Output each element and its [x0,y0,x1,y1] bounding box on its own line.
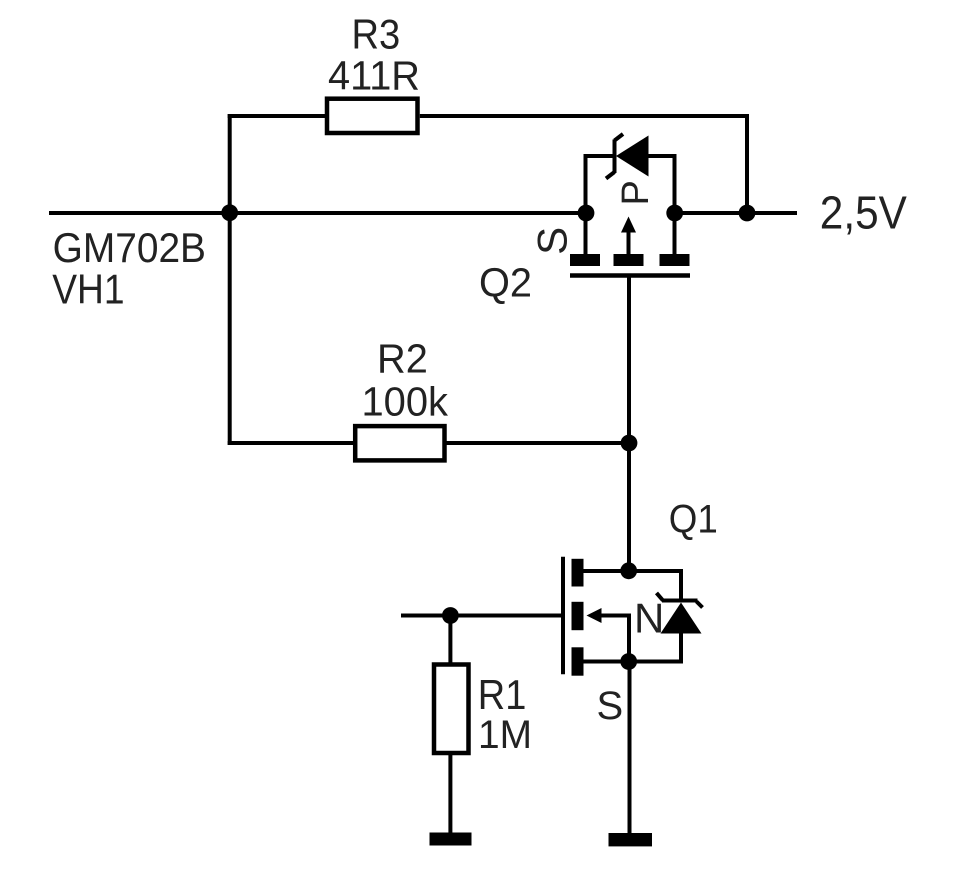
svg-text:100k: 100k [362,379,449,425]
wire: Q1 source to ground vertical [628,662,632,835]
node: R1 / gate junction dot [442,607,459,624]
wire: Q2 source vertical to channel bar [584,213,588,256]
Q1 channel bar drain [572,559,584,587]
wire: Q1 source horizontal [584,660,684,664]
Q2 body diode right wire [649,154,677,158]
svg-text:GM702B: GM702B [53,224,206,271]
svg-text:2,5V: 2,5V [820,187,907,239]
wire: Q1 gate horizontal [401,614,561,618]
wire: junction down to Q1 drain [627,443,631,571]
Q2 channel bar source [570,254,600,266]
svg-text:P: P [615,180,657,205]
Q2 gate plate [570,273,690,278]
wire: R2 right horizontal to Q2 gate net [445,441,630,445]
transistor Q1 n-channel MOSFET [563,498,718,728]
node: Q2 source dot on input net [578,205,595,222]
Q2 body diode cathode bar (zener) [613,140,617,174]
Q1 body diode cathode right tail [697,602,703,608]
svg-text:VH1: VH1 [52,266,124,313]
wire: R1 top vertical [448,616,452,665]
Q2 channel bar drain [660,254,690,266]
Q2 channel bar bulk [614,254,644,266]
Q2 body diode triangle [616,136,649,177]
Q2 bulk arrow (P-channel, pointing up) [627,230,631,256]
wire: R2 branch left horizontal [228,441,357,445]
svg-text:N: N [634,595,664,642]
svg-text:S: S [529,227,576,255]
Q2 body diode cathode bottom tail [606,172,615,179]
node: Q1 source junction dot [620,653,637,670]
Q1 body diode cathode left tail [657,593,664,601]
node: Q2 drain dot on 2,5V net [666,205,683,222]
svg-text:Q1: Q1 [669,498,718,542]
wire: Q2 drain vertical to channel bar [673,213,677,256]
wire: R3 branch top right horizontal [420,114,749,118]
ground symbol below Q1 source [609,833,653,846]
Q1 channel bar bulk [572,602,584,630]
ground symbol below R1 [430,833,472,846]
svg-text:1M: 1M [478,713,532,757]
svg-text:411R: 411R [328,53,420,99]
wire: input net to Q2 source [230,211,586,215]
svg-text:R1: R1 [478,671,527,718]
wire: R1 bottom vertical [448,753,452,834]
wire: Q1 body branch right vertical upper [679,571,683,601]
transistor Q2 p-channel MOSFET [479,134,690,306]
Q1 body diode cathode bar (zener) [662,599,698,603]
resistor R2 [355,426,444,460]
wire: R3 branch right vertical down to 2,5V net [745,114,749,213]
wire: R3 branch top left horizontal [228,114,327,118]
svg-text:R2: R2 [377,335,428,381]
wire: 2,5V net horizontal [675,211,797,215]
node: 2,5V junction dot [739,205,756,222]
Q1 body diode triangle [661,603,702,634]
wire: Q2 gate vertical down from gate plate [627,277,631,443]
svg-text:R3: R3 [352,10,401,57]
wire: input net horizontal from left edge [49,211,230,215]
svg-text:S: S [597,684,624,728]
Q1 gate electrode line [561,557,565,675]
Q2 body diode left wire [584,156,588,213]
resistor R3 [327,99,418,133]
wire: R3 branch left vertical [228,114,232,213]
node: Q1 drain junction dot [620,562,637,579]
resistor R1 [434,665,469,754]
Q2 body diode cathode top tail [615,134,624,141]
node: input junction dot [221,204,238,221]
Q1 bulk arrow (N-channel, pointing at channel) [600,616,629,662]
Q1 channel bar source [572,647,584,675]
svg-text:Q2: Q2 [479,260,532,306]
wire: R2 branch left vertical [228,213,232,445]
wire: Q1 drain horizontal [584,569,684,573]
node: Q2 gate / R2 / Q1 drain junction dot [621,435,638,452]
wire: Q1 body branch right vertical lower [679,633,683,664]
